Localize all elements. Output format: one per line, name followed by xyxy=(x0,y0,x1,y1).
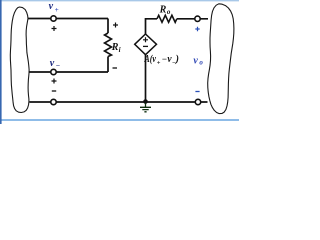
dependent source A(v+-v-) diamond xyxy=(135,34,157,55)
svg-text:v: v xyxy=(193,55,198,66)
svg-text:i: i xyxy=(119,46,121,54)
top border rule xyxy=(0,0,239,2)
svg-text:R: R xyxy=(111,42,119,53)
polarity minus for vo (blue) xyxy=(195,91,199,93)
minus inside diamond xyxy=(143,45,148,47)
polarity minus for Ri bottom xyxy=(113,67,118,69)
ground symbol xyxy=(140,103,151,112)
svg-text:o: o xyxy=(167,8,171,16)
node vo- open circle xyxy=(195,99,200,104)
left border rule xyxy=(0,0,2,124)
wire: dependent source top lead and corner to Ro xyxy=(146,19,158,35)
polarity plus for vo (blue) xyxy=(195,27,199,31)
wire: Ro to output terminal and cloud xyxy=(177,18,208,20)
svg-text:+: + xyxy=(157,59,161,66)
svg-text:+: + xyxy=(55,6,59,14)
plus inside diamond xyxy=(143,37,148,42)
resistor Ro zigzag xyxy=(157,15,177,22)
svg-text:v: v xyxy=(50,58,55,69)
wire: dependent source bottom lead xyxy=(145,54,147,102)
left source cloud boundary xyxy=(10,7,29,113)
polarity minus above bottom-left node xyxy=(52,90,56,92)
polarity plus below v- wire xyxy=(52,79,57,84)
wire: Ri top lead (corner down to resistor) xyxy=(107,19,109,34)
svg-text:R: R xyxy=(159,4,167,15)
wire: v+ terminal wire from cloud to loop corner xyxy=(28,18,109,20)
bottom border rule xyxy=(0,119,239,121)
node v+ open circle xyxy=(51,16,56,21)
svg-text:A(v: A(v xyxy=(144,54,157,65)
svg-text:−: − xyxy=(162,54,167,64)
wire: Ri bottom lead xyxy=(107,57,109,73)
wire: bottom common wire xyxy=(30,101,208,103)
polarity plus below v+ wire xyxy=(52,26,57,31)
node vo+ open circle xyxy=(195,16,200,21)
node v- open circle xyxy=(51,69,56,74)
svg-text:): ) xyxy=(175,54,179,65)
node bottom-left open circle xyxy=(51,99,56,104)
resistor Ri zigzag xyxy=(105,33,112,57)
right load cloud boundary xyxy=(208,4,234,114)
junction dot at ground node xyxy=(143,99,148,104)
polarity plus for Ri top xyxy=(113,23,118,28)
svg-text:o: o xyxy=(199,59,203,67)
wire: v- terminal wire from cloud to Ri branch xyxy=(29,71,109,73)
svg-text:v: v xyxy=(49,1,54,12)
svg-text:−: − xyxy=(56,61,60,70)
